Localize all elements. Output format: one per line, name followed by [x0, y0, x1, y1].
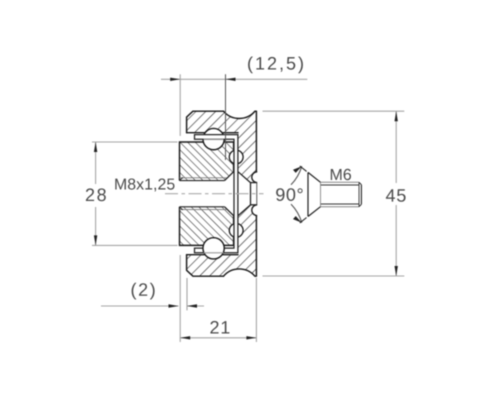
outer wheel section, bottom half	[187, 205, 257, 276]
outer wheel section, top half	[187, 111, 257, 182]
dimension (2)	[101, 278, 204, 311]
wheel outline strokes bottom	[187, 255, 257, 277]
centerline (axis)	[165, 193, 264, 195]
inner threaded bushing section, top half	[180, 142, 234, 181]
cap flange edge faintly visible through ball	[204, 252, 224, 254]
bearing ball top	[203, 128, 224, 149]
internal thread bore lines	[180, 178, 227, 210]
90 degree countersink angle dimension	[291, 166, 307, 223]
dimension 45	[263, 111, 406, 276]
inner threaded bushing section, bottom half	[180, 207, 234, 246]
dimension 28	[86, 142, 178, 245]
wheel right face segments with relief notches	[255, 111, 257, 276]
dimension 21	[180, 255, 256, 342]
small ball top (behind cap web)	[229, 150, 243, 164]
countersink void in bushing (white)	[225, 172, 234, 216]
C-shaped cap / shield	[195, 135, 238, 253]
label M6	[331, 169, 351, 180]
relief notch arcs (white semicircles)	[252, 172, 257, 183]
countersink void in wheel (white) + screw hole box	[238, 172, 251, 216]
dimension (12,5)	[161, 57, 307, 161]
bearing ball bottom (drawn over cap flange)	[203, 238, 224, 259]
M6 countersunk screw	[308, 172, 321, 216]
thread label M8x1,25	[115, 179, 174, 192]
wheel outline strokes top	[187, 111, 257, 133]
small ball bottom (behind cap web)	[229, 224, 243, 238]
bushing outline strokes	[180, 142, 234, 245]
